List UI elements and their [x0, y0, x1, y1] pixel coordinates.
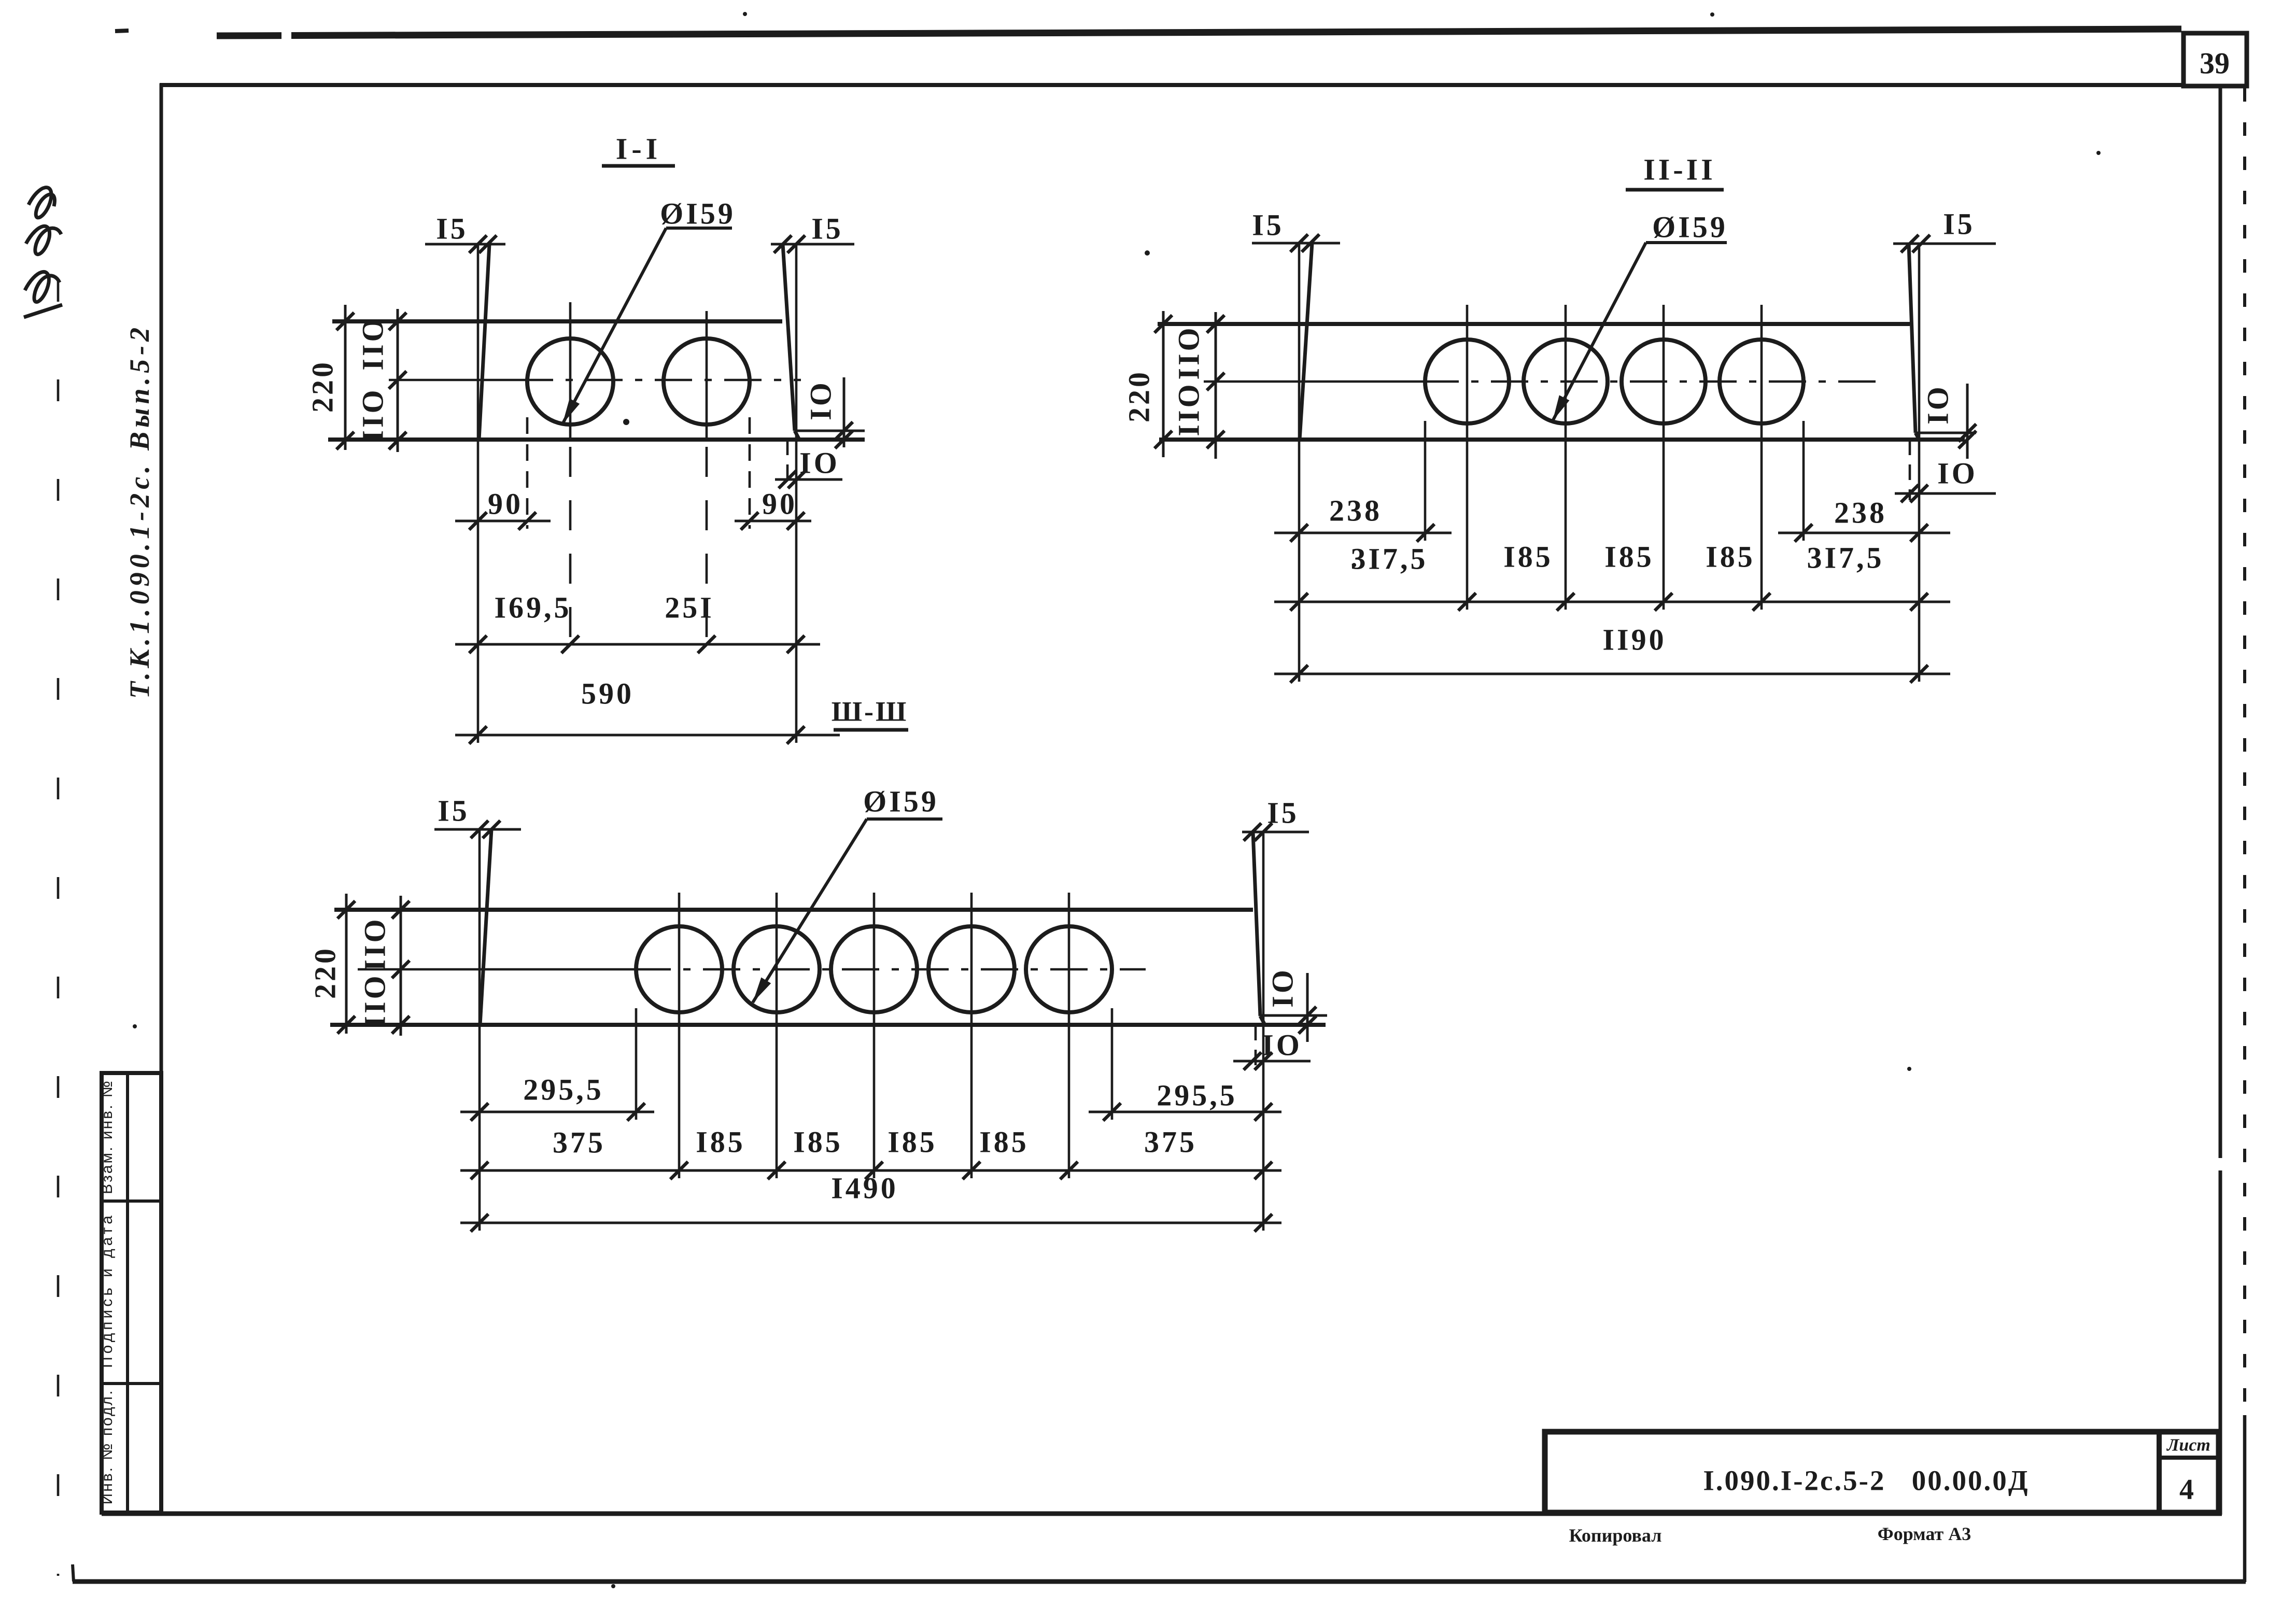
section III-III dimension 15 right	[1242, 831, 1309, 834]
section III-III circle edge extension lines	[635, 1008, 638, 1120]
section III-III hollow core circle 2	[734, 926, 820, 1012]
section II-II dimension 238 left	[1274, 532, 1452, 534]
svg-text:I85: I85	[888, 1125, 937, 1159]
title block divider	[2157, 1432, 2162, 1513]
drawing frame bottom edge	[102, 1512, 2222, 1516]
handwritten scribble	[24, 188, 62, 317]
drawing frame right edge	[2219, 86, 2222, 1158]
svg-text:220: 220	[306, 360, 340, 413]
drawing frame left edge	[160, 83, 163, 1516]
section III-III vertical dimension lines left	[345, 894, 348, 1034]
svg-text:I-I: I-I	[616, 132, 661, 166]
section I-I dimensions 169.5 and 251	[455, 643, 820, 646]
section III-III slab left face	[480, 829, 491, 1025]
section II-II dimensions 317.5 / 185 row	[1274, 601, 1950, 603]
svg-text:3I7,5: 3I7,5	[1350, 542, 1428, 576]
svg-text:I5: I5	[1943, 207, 1975, 241]
section I-I vertical dimension lines left	[344, 305, 347, 450]
section III-III hollow core circle 1	[636, 926, 722, 1012]
section I-I slab left face	[479, 244, 489, 440]
svg-text:I.090.I-2с.5-2 00.00.0Д: I.090.I-2с.5-2 00.00.0Д	[1703, 1465, 2029, 1497]
svg-text:I5: I5	[1252, 208, 1284, 242]
section II-II circle edge extension lines	[1424, 421, 1427, 541]
svg-text:220: 220	[308, 946, 342, 999]
section I-I dimension 590	[455, 734, 840, 737]
svg-text:IO: IO	[799, 446, 840, 480]
section III-III slab right face	[1253, 832, 1260, 1016]
section I-I centerline	[389, 379, 516, 382]
svg-text:Взам. инв. №: Взам. инв. №	[98, 1079, 116, 1194]
svg-text:I5: I5	[1267, 796, 1299, 830]
svg-text:Т.К.1.090.1-2с. Вып.5-2: Т.К.1.090.1-2с. Вып.5-2	[124, 323, 155, 699]
svg-text:IO: IO	[1937, 457, 1978, 490]
svg-text:I69,5: I69,5	[494, 591, 571, 625]
section III-III dimension 10 vertical right	[1306, 973, 1309, 1042]
section I-I dimension 15 left	[425, 243, 505, 246]
section II-II dimension 238 right	[1778, 532, 1950, 534]
section II-II slab right face	[1909, 244, 1915, 433]
svg-text:I85: I85	[979, 1125, 1029, 1159]
svg-text:90: 90	[488, 487, 523, 521]
section I-I dimension 15 right	[771, 243, 854, 246]
svg-text:238: 238	[1329, 494, 1382, 528]
svg-text:IIO: IIO	[358, 973, 392, 1027]
section I-I dimension 10 horizontal right	[786, 440, 789, 487]
section I-I left reference extension	[477, 244, 480, 743]
section I-I right reference extension	[795, 244, 798, 743]
section I-I dimension 90 right	[735, 520, 811, 523]
svg-text:IIO: IIO	[358, 916, 392, 971]
form column divider 1	[102, 1199, 161, 1203]
svg-text:IO: IO	[1921, 384, 1955, 425]
svg-text:4: 4	[2179, 1474, 2194, 1506]
svg-text:238: 238	[1834, 496, 1887, 530]
svg-text:IIO: IIO	[1172, 382, 1206, 436]
section I-I circle 2 vertical centerline	[706, 311, 708, 441]
section II-II slab bottom edge	[1159, 437, 1965, 442]
svg-text:IIO: IIO	[1172, 325, 1206, 379]
svg-text:375: 375	[1144, 1125, 1197, 1159]
section II-II left reference extension	[1298, 243, 1301, 682]
section II-II slab left face	[1300, 243, 1312, 440]
section II-II vertical dimension lines left	[1162, 311, 1165, 457]
svg-text:II90: II90	[1602, 623, 1666, 657]
section II-II chamfer top line	[1915, 432, 1976, 434]
section II-II hollow core circle 3	[1622, 340, 1706, 424]
section I-I circle 1 vertical centerline	[569, 302, 572, 441]
svg-text:I5: I5	[811, 212, 843, 246]
svg-text:25I: 25I	[665, 591, 714, 625]
svg-text:I5: I5	[436, 212, 468, 246]
section II-II slab right chamfer	[1915, 433, 1919, 440]
section II-II centerline	[1204, 380, 1421, 383]
svg-text:295,5: 295,5	[1157, 1079, 1237, 1112]
section III-III slab top edge	[334, 908, 1253, 912]
section III-III dimension 295.5 right	[1089, 1111, 1281, 1113]
svg-text:295,5: 295,5	[523, 1073, 604, 1107]
section I-I circle edge extension lines	[526, 417, 529, 529]
section I-I slab right face	[783, 244, 795, 431]
section III-III centerline	[358, 968, 633, 971]
section I-I slab bottom edge	[328, 437, 865, 442]
title block List divider	[2159, 1456, 2219, 1460]
svg-text:I85: I85	[1503, 540, 1553, 574]
svg-text:Формат А3: Формат А3	[1878, 1523, 1971, 1544]
svg-text:I85: I85	[1706, 540, 1755, 574]
section I-I hollow core circle 1	[527, 338, 613, 425]
svg-text:Копировал: Копировал	[1569, 1525, 1662, 1546]
svg-text:ØI59: ØI59	[1652, 210, 1728, 244]
section I-I chamfer top line	[795, 430, 865, 432]
svg-text:375: 375	[553, 1126, 605, 1160]
section II-II dimension 15 right	[1893, 243, 1996, 245]
section III-III right reference extension	[1262, 832, 1265, 1231]
section II-II dimension 15 left	[1252, 242, 1340, 245]
svg-text:Лист: Лист	[2166, 1436, 2210, 1455]
svg-text:I85: I85	[793, 1125, 843, 1159]
svg-text:IO: IO	[1266, 967, 1300, 1008]
section II-II hollow core circle 4	[1720, 340, 1804, 424]
section III-III dimension 295.5 left	[460, 1111, 654, 1113]
scan page bottom edge	[73, 1579, 2246, 1584]
scan page top edge line	[217, 32, 281, 39]
svg-text:90: 90	[762, 487, 797, 521]
form column divider 2	[102, 1382, 161, 1385]
sheet number box	[2184, 33, 2247, 86]
form column divider	[126, 1073, 129, 1513]
section II-II right reference extension	[1918, 244, 1921, 682]
svg-text:II-II: II-II	[1643, 153, 1716, 187]
section III-III chamfer top line	[1260, 1014, 1327, 1017]
svg-text:I490: I490	[831, 1172, 898, 1205]
section II-II circle vertical centerlines	[1466, 305, 1469, 610]
section III-III dimension 15 left	[434, 828, 521, 831]
svg-text:IO: IO	[1262, 1028, 1302, 1062]
section I-I dimension 10 vertical right	[843, 377, 846, 447]
drawing frame top edge	[160, 83, 2184, 87]
section I-I dimension 90 left	[455, 520, 551, 523]
section II-II hollow core circle 1	[1425, 340, 1509, 424]
section III-III left reference extension	[478, 829, 481, 1231]
svg-text:220: 220	[1122, 370, 1156, 422]
svg-text:Ш-Ш: Ш-Ш	[832, 696, 909, 727]
section III-III hollow core circle 3	[831, 926, 917, 1012]
section III-III dimension 1490	[460, 1222, 1281, 1224]
section III-III hollow core circle 4	[928, 926, 1015, 1012]
scan page right edge dotted	[2243, 88, 2246, 1415]
left margin form column outline	[102, 1073, 161, 1513]
svg-text:Инв. № подл.: Инв. № подл.	[98, 1389, 116, 1505]
section II-II slab top edge	[1158, 322, 1910, 326]
svg-text:IO: IO	[804, 380, 838, 420]
section III-III circle vertical centerlines	[678, 893, 681, 1178]
svg-text:IIO: IIO	[356, 316, 390, 370]
svg-text:I85: I85	[696, 1125, 745, 1159]
svg-text:Подпись и дата: Подпись и дата	[98, 1212, 116, 1368]
svg-text:39: 39	[2200, 47, 2230, 80]
section II-II hollow core circle 2	[1524, 340, 1608, 424]
section I-I slab right chamfer	[795, 431, 799, 440]
title block outline	[1545, 1432, 2219, 1513]
svg-text:IIO: IIO	[356, 387, 390, 442]
section II-II dimension 10 vertical right	[1966, 384, 1969, 459]
svg-text:3I7,5: 3I7,5	[1807, 541, 1884, 575]
svg-text:I85: I85	[1604, 540, 1654, 574]
svg-text:590: 590	[581, 677, 634, 711]
section I-I hollow core circle 2	[664, 338, 750, 425]
section I-I slab top edge	[332, 319, 782, 323]
scan page left edge dashed	[57, 280, 60, 1576]
section III-III slab right chamfer	[1260, 1016, 1265, 1025]
section II-II dimension 1190	[1274, 673, 1950, 675]
svg-text:ØI59: ØI59	[660, 197, 736, 231]
section III-III slab bottom edge	[330, 1023, 1326, 1027]
section III-III hollow core circle 5	[1026, 926, 1112, 1012]
svg-text:ØI59: ØI59	[863, 785, 939, 818]
svg-text:I5: I5	[438, 794, 470, 828]
section III-III dimensions 375 / 185 row	[460, 1169, 1281, 1172]
section III-III dimension 10 horizontal right	[1255, 1025, 1257, 1070]
section II-II dimension 10 horizontal right	[1909, 440, 1911, 500]
